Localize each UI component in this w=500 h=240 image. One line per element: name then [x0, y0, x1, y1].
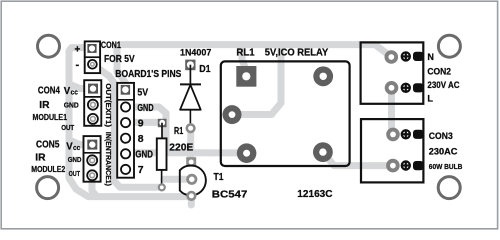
- svg-text:CON4: CON4: [38, 86, 60, 97]
- pad top square: [158, 119, 167, 127]
- svg-text:5V,ICO RELAY: 5V,ICO RELAY: [265, 47, 329, 58]
- wire: [161, 170, 163, 185]
- svg-text:R1: R1: [174, 126, 184, 137]
- pin OUT round pad: [87, 170, 97, 180]
- wire D1 anode down to T1 collector pad: [187, 129, 194, 161]
- svg-text:OUT(EXIT1): OUT(EXIT1): [104, 83, 113, 127]
- pin 5V square pad: [121, 85, 130, 95]
- svg-text:GND: GND: [137, 102, 153, 114]
- pin Vcc square pad: [88, 84, 98, 94]
- coil pad left-middle: [223, 105, 242, 124]
- pad collector square: [186, 157, 196, 167]
- wire CON5 OUT drop: [92, 176, 96, 196]
- pad cathode square: [185, 60, 195, 71]
- svg-text:FOR 5V: FOR 5V: [104, 54, 135, 65]
- body outline: [180, 165, 206, 195]
- pin GND pad: [121, 102, 130, 111]
- svg-text:+: +: [75, 45, 81, 56]
- pin 7 pad: [121, 165, 130, 174]
- pad anode ring: [187, 124, 195, 132]
- hole L ring: [387, 83, 397, 93]
- pin 9 pad: [121, 118, 130, 127]
- svg-text:60W BULB: 60W BULB: [429, 162, 463, 171]
- hole upper ring: [388, 130, 398, 140]
- wire left rail to bottom run: [69, 141, 188, 197]
- wire GND pin2 to hidden vertical: [126, 107, 167, 150]
- screw lower: [402, 161, 410, 169]
- pad base ring: [188, 175, 196, 183]
- svg-text:GND: GND: [68, 155, 82, 164]
- svg-text:IR: IR: [39, 100, 49, 111]
- svg-text:T1: T1: [214, 171, 224, 183]
- wire left rail down: [69, 80, 90, 145]
- body: [157, 138, 167, 170]
- wire 5V top trace from header pin1 to CON2 N: [117, 45, 392, 72]
- pin 2 round pad: [88, 60, 97, 69]
- wire T1 emitter stub: [188, 197, 195, 206]
- svg-text:cc: cc: [71, 89, 78, 96]
- svg-text:RL1: RL1: [236, 47, 255, 58]
- screw L: [402, 84, 410, 92]
- wire: [189, 110, 191, 124]
- wire header pin1 drop: [117, 70, 126, 88]
- svg-text:IN(ENTRANCE1): IN(ENTRANCE1): [104, 132, 113, 187]
- wire GND pin5 across to relay BL pad: [126, 149, 245, 156]
- pad emitter ring: [188, 192, 196, 200]
- svg-text:BC547: BC547: [212, 189, 248, 201]
- wire branch to relay pin1 square pad: [242, 45, 246, 70]
- svg-text:1N4007: 1N4007: [180, 47, 211, 57]
- wire: [189, 65, 191, 85]
- wire CON2 L to CON3 upper ring: [388, 86, 395, 134]
- svg-text:8: 8: [138, 133, 144, 145]
- pin GND2 pad: [121, 149, 130, 158]
- hole bottom-right: [438, 177, 460, 199]
- contact pad bottom-right: [313, 142, 333, 162]
- wire: [161, 123, 163, 139]
- contact pad bottom-left: [237, 143, 257, 163]
- wire pin9 to R1 top pad: [126, 119, 159, 126]
- svg-text:N: N: [427, 52, 434, 62]
- svg-text:MODULE1: MODULE1: [33, 112, 68, 122]
- svg-text:OUT: OUT: [69, 169, 81, 178]
- clamp L: [413, 83, 424, 92]
- hole lower ring: [388, 161, 398, 171]
- pin 1 square pad: [87, 44, 96, 53]
- pin OUT round pad: [88, 114, 98, 124]
- svg-text:5V: 5V: [137, 86, 148, 98]
- hole N ring: [386, 52, 396, 62]
- svg-text:BOARD1'S PINS: BOARD1'S PINS: [115, 69, 181, 80]
- hole bottom-left: [37, 177, 59, 199]
- svg-text:9: 9: [138, 117, 144, 129]
- svg-text:230V AC: 230V AC: [427, 80, 460, 90]
- pin GND round pad: [87, 155, 97, 165]
- coil pad top-right: [313, 66, 333, 86]
- svg-text:L: L: [427, 93, 433, 103]
- svg-text:IR: IR: [35, 152, 45, 163]
- svg-text:CON1: CON1: [101, 40, 121, 50]
- svg-text:CON2: CON2: [427, 66, 451, 76]
- wire relay BR pad to CON3 lower ring: [323, 152, 390, 165]
- svg-text:GND: GND: [64, 100, 79, 109]
- wire CON1 + to CON4 Vcc and CON5 Vcc left rail: [69, 48, 91, 89]
- pin 8 pad: [121, 134, 130, 143]
- pin GND round pad: [88, 100, 98, 110]
- svg-text:CON5: CON5: [36, 139, 60, 150]
- cathode bar: [180, 83, 201, 85]
- svg-text:230AC: 230AC: [429, 146, 458, 156]
- pin 1 square pad: [236, 66, 256, 87]
- svg-text:220E: 220E: [169, 141, 193, 153]
- screw upper: [402, 130, 410, 138]
- svg-text:-: -: [76, 59, 80, 71]
- wire branch to relay coil pad via vertical x281: [236, 45, 281, 115]
- clamp lower: [413, 161, 424, 170]
- svg-text:MODULE2: MODULE2: [31, 164, 65, 174]
- svg-text:cc: cc: [73, 145, 80, 152]
- wire CON1 - down right of CON4 to R1 bottom: [92, 64, 158, 187]
- svg-text:D1: D1: [199, 64, 211, 75]
- clamp upper: [413, 130, 424, 139]
- svg-text:12163C: 12163C: [297, 188, 333, 200]
- svg-text:7: 7: [138, 164, 144, 176]
- anode triangle: [180, 85, 201, 110]
- clamp N: [413, 52, 424, 61]
- pad bottom ring: [159, 184, 165, 190]
- pin Vcc square pad: [87, 140, 97, 150]
- svg-text:GND: GND: [135, 149, 153, 161]
- screw N: [402, 52, 410, 60]
- hole top-right: [438, 35, 460, 57]
- svg-text:CON3: CON3: [429, 131, 453, 141]
- hole top-left: [38, 35, 60, 57]
- wire R1 lead to T1 base pad: [164, 176, 186, 183]
- svg-text:OUT: OUT: [61, 123, 74, 132]
